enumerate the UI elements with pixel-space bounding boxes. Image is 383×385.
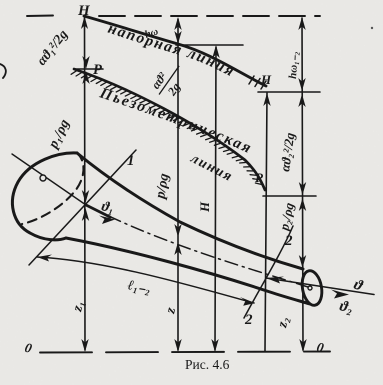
arrow down at baseline x178 bbox=[174, 339, 181, 352]
arrow down at P tick (86,69) bbox=[82, 56, 89, 69]
wire dimension line x=216 (H) bbox=[215, 47, 216, 350]
node P tick left bbox=[74, 68, 103, 70]
node H datum dashed line left part bbox=[27, 15, 53, 18]
node datum line O-O dashed bbox=[40, 352, 330, 353]
pipe bottom boundary bbox=[66, 238, 310, 304]
node tick y196 bbox=[263, 195, 316, 197]
wire dimension line x=302 bbox=[302, 18, 303, 350]
pipe top boundary bbox=[77, 153, 303, 269]
wire dimension line x=178 bbox=[177, 19, 179, 350]
paper specks bbox=[371, 27, 373, 29]
arrow up at tick92 x266 bbox=[263, 93, 270, 106]
arrow up at top x178 bbox=[174, 17, 181, 30]
pipe inlet ellipse rim (solid front) bbox=[12, 153, 77, 240]
arrow down at baseline x216 bbox=[211, 339, 218, 352]
arrow up at center from below bbox=[82, 208, 89, 221]
node H datum dashed line right part bbox=[99, 15, 320, 17]
label alpha v^2/2g mid (stacked fraction) bbox=[147, 57, 192, 103]
arrow down at baseline x302 bbox=[299, 339, 306, 352]
arrow up at H (86,17) bbox=[81, 16, 88, 29]
arrow down at tick196 x302 bbox=[299, 182, 306, 195]
node left edge mark bbox=[0, 64, 6, 78]
arrow down at center (86,203) bbox=[82, 190, 89, 203]
arrow up at top x302 bbox=[298, 17, 305, 30]
paper grain bbox=[0, 0, 1, 1]
arrowhead l1-2 left bbox=[37, 255, 52, 262]
wire energy head line H-H (напорная линия) bbox=[84, 16, 266, 86]
arrow up below tick196 x302 bbox=[299, 198, 306, 211]
pipe outlet ellipse bbox=[300, 269, 325, 307]
arrow down at pipe top x302 bbox=[299, 255, 306, 268]
wire piezometric line P-P (пьезометрическая линия) bbox=[74, 69, 265, 190]
pipe inlet rim back (dashed) bbox=[22, 153, 84, 224]
node inlet center small circle bbox=[40, 175, 46, 181]
arrowhead axis left at section 2 bbox=[266, 277, 284, 284]
arrowhead v1 bbox=[99, 216, 115, 225]
arrow down at tick92 x302 bbox=[298, 78, 305, 91]
wire left dimension line x=86 bbox=[84, 17, 87, 350]
wire dimension line x=266 bbox=[265, 93, 267, 351]
node energy line end hatch bbox=[249, 76, 266, 89]
arrowheads bbox=[37, 16, 349, 352]
arrow up below axis x178 bbox=[174, 242, 181, 255]
velocity arrow v2 bbox=[266, 278, 374, 295]
arrow up below tick92 x302 bbox=[298, 94, 305, 107]
wire inlet axis line to rim center bbox=[12, 154, 86, 205]
arrow down at baseline x86 bbox=[81, 339, 88, 352]
wire length dimension curve l1-2 bbox=[37, 257, 254, 303]
wire section line 1-1 bbox=[29, 150, 136, 265]
arrow up at tick45 x216 bbox=[212, 45, 219, 58]
wire section line 2-2 bbox=[244, 226, 293, 318]
node outlet center mark bbox=[308, 286, 312, 290]
arrow down at energy line x178 bbox=[174, 31, 181, 44]
wire pipe axis dash-dot bbox=[86, 205, 308, 287]
arrow up below P tick bbox=[82, 71, 89, 84]
node tick y45 bbox=[176, 44, 243, 46]
node tick y92 bbox=[258, 91, 320, 93]
arrow down at axis x178 bbox=[174, 224, 181, 237]
velocity arrow v1 bbox=[86, 205, 110, 217]
arrowhead v2 bbox=[331, 290, 349, 299]
node piezo hatching bbox=[71, 70, 263, 185]
arrowhead l1-2 right bbox=[240, 297, 255, 306]
